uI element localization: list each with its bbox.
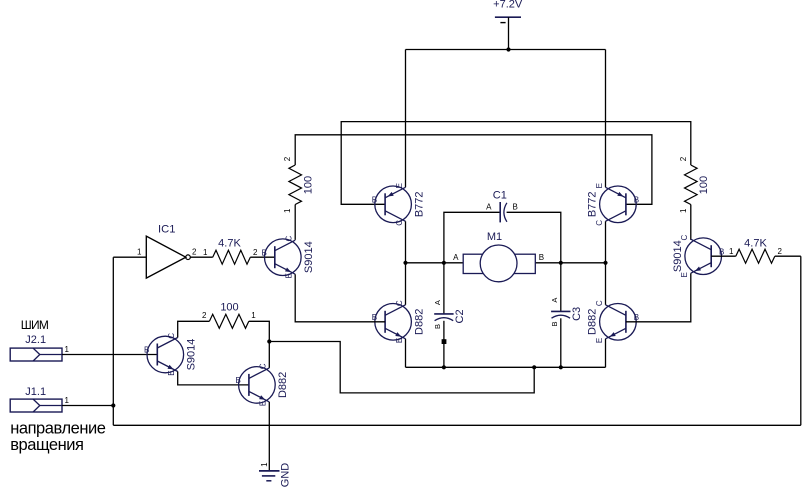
motor M1 (463, 245, 535, 282)
svg-text:D882: D882 (413, 309, 425, 335)
svg-text:2: 2 (192, 248, 197, 257)
wire Q4 emitter to Q6 base (626, 273, 691, 322)
svg-text:IC1: IC1 (158, 224, 175, 236)
wire rail A (341, 122, 691, 205)
pin 2 label R3 (253, 248, 258, 257)
wire Q6 emitter to bottom row (605, 339, 607, 368)
svg-text:1: 1 (283, 208, 292, 213)
node motor-right junction (603, 261, 607, 265)
svg-text:C2: C2 (454, 309, 466, 323)
svg-text:B: B (144, 346, 149, 355)
node C3 bottom junction (559, 365, 563, 369)
wire power stem (508, 17, 510, 49)
node control-wire junction (532, 365, 536, 369)
wire C2 top lead (443, 263, 445, 314)
label M1 (487, 231, 502, 243)
svg-text:S9014: S9014 (672, 240, 684, 272)
svg-text:направление: направление (10, 420, 106, 438)
wire left drop to Q1 emitter (405, 50, 407, 188)
svg-text:C: C (167, 333, 176, 339)
pin 1 label R3 (203, 248, 208, 257)
svg-text:J2.1: J2.1 (25, 334, 46, 346)
resistor 4.7K (right, R4) (736, 249, 775, 263)
svg-text:100: 100 (220, 302, 238, 314)
resistor 100 (right, R2) (685, 165, 698, 205)
transistor Q3 S9014 (upper-left NPN) (261, 235, 315, 278)
svg-text:S9014: S9014 (303, 241, 315, 273)
wire J1.1 to node (62, 405, 113, 407)
resistor 100 (control, R5) (209, 314, 248, 328)
svg-text:C: C (395, 300, 404, 306)
wire Q1 collector to motor row (405, 221, 407, 262)
pin 1 label IC1 (137, 248, 142, 257)
node C3 top junction (559, 261, 563, 265)
svg-text:1: 1 (65, 345, 70, 354)
op-amp IC1 inverter (146, 236, 190, 278)
svg-text:2: 2 (778, 247, 783, 256)
pin A label M1 (453, 253, 459, 262)
node R5-C2 wire junction (267, 339, 271, 343)
wire R3 to Q3 base (250, 256, 274, 258)
svg-text:A: A (486, 202, 492, 211)
pin 2 label R2 (679, 156, 688, 161)
power +7.2V label (493, 0, 523, 10)
svg-text:B: B (634, 196, 639, 205)
svg-text:B: B (261, 248, 266, 257)
resistor 4.7K (left, R3) (213, 250, 251, 264)
wire Q5 emitter to bottom row (405, 339, 407, 368)
svg-text:B: B (433, 324, 442, 329)
svg-text:S9014: S9014 (186, 339, 198, 371)
value label R5 100 (220, 302, 238, 314)
transistor Q8 D882 (control NPN) (236, 363, 290, 406)
svg-text:C: C (595, 220, 604, 226)
svg-text:1: 1 (137, 248, 142, 257)
capacitor C3 (550, 298, 583, 327)
transistor Q6 D882 (bottom-right NPN) (587, 300, 639, 343)
svg-text:D882: D882 (277, 372, 289, 398)
wire C2 bottom lead (443, 321, 445, 368)
wire C1 left branch (444, 212, 500, 262)
node C2 top junction (442, 261, 446, 265)
svg-text:4.7K: 4.7K (218, 238, 241, 250)
svg-text:2: 2 (253, 248, 258, 257)
node motor-left junction (403, 261, 407, 265)
svg-text:B: B (539, 253, 544, 262)
wire junction to C2/C3 net (269, 342, 534, 393)
wire R5 to Q8 collector (249, 321, 269, 368)
pin 1 label R5 (251, 311, 256, 320)
svg-text:B772: B772 (587, 191, 599, 217)
value label R4 4.7K (744, 238, 767, 250)
svg-text:1: 1 (203, 248, 208, 257)
transistor Q2 B772 (top-right PNP) (587, 183, 639, 226)
svg-text:C: C (595, 300, 604, 306)
svg-text:1: 1 (251, 311, 256, 320)
wire bottom rail (113, 424, 801, 426)
wire motor row right (535, 262, 605, 264)
svg-text:E: E (395, 183, 404, 188)
svg-text:E: E (259, 401, 268, 406)
svg-text:+7.2V: +7.2V (493, 0, 523, 10)
capacitor C1 (500, 202, 507, 222)
wire R1 to Q3 collector (294, 205, 296, 240)
wire Q6 collector (605, 263, 607, 305)
pin 2 label R5 (202, 311, 207, 320)
svg-text:100: 100 (698, 176, 710, 194)
svg-text:E: E (285, 273, 294, 278)
wire Q7 collector up (178, 321, 210, 337)
svg-text:D882: D882 (587, 309, 599, 335)
svg-text:B: B (634, 313, 639, 322)
label napravlenie (10, 420, 106, 438)
wire Q2 collector to motor row (605, 221, 607, 262)
svg-text:A: A (550, 298, 559, 303)
wire rail B (295, 135, 652, 205)
transistor Q5 D882 (bottom-left NPN) (372, 300, 426, 343)
wire left riser (112, 257, 114, 425)
svg-text:1: 1 (679, 208, 688, 213)
svg-text:C: C (680, 234, 689, 240)
wire J2.1 to Q7 base (62, 354, 157, 356)
svg-text:E: E (167, 370, 176, 375)
svg-text:B772: B772 (413, 191, 425, 217)
wire Q8 emitter to ground (268, 402, 270, 471)
svg-text:GND: GND (279, 463, 291, 488)
svg-text:B: B (372, 196, 377, 205)
svg-text:B: B (719, 247, 724, 256)
svg-text:1: 1 (65, 396, 70, 405)
svg-text:4.7K: 4.7K (744, 238, 767, 250)
svg-text:E: E (395, 338, 404, 343)
wire C1 right branch (507, 212, 561, 262)
svg-text:1: 1 (729, 247, 734, 256)
capacitor C2 (433, 300, 466, 329)
power supply symbol +7.2V (495, 17, 521, 22)
wire C3 top lead (560, 263, 562, 312)
node square on C2 lead (442, 339, 447, 344)
svg-text:ШИМ: ШИМ (21, 318, 49, 332)
svg-text:1: 1 (260, 462, 269, 467)
pin A label C1 (486, 202, 492, 211)
pin 2 label R1 (283, 156, 292, 161)
transistor Q1 B772 (top-left PNP) (372, 183, 426, 226)
svg-text:E: E (595, 338, 604, 343)
svg-text:E: E (595, 183, 604, 188)
svg-text:C: C (285, 235, 294, 241)
svg-text:A: A (453, 253, 459, 262)
svg-text:B: B (513, 202, 518, 211)
pin 1 label J1.1 (65, 396, 70, 405)
pin 1 label J2.1 (65, 345, 70, 354)
value label R1 100 (303, 176, 315, 194)
resistor 100 (left, R1) (289, 165, 302, 205)
node power junction (506, 47, 510, 51)
pin 2 label R4 (778, 247, 783, 256)
node J1.1 junction (111, 403, 115, 407)
connector J1.1 (10, 386, 62, 412)
label GND (279, 463, 291, 488)
pin 2 label IC1 (192, 248, 197, 257)
wire right riser (800, 256, 802, 425)
label SHIM (21, 318, 49, 332)
pin 1 label R4 (729, 247, 734, 256)
svg-text:B: B (550, 321, 559, 326)
svg-text:M1: M1 (487, 231, 502, 243)
label vrashcheniya (10, 436, 83, 454)
svg-text:B: B (236, 376, 241, 385)
svg-text:J1.1: J1.1 (25, 386, 46, 398)
svg-text:C1: C1 (493, 189, 507, 201)
wire emitter row (406, 366, 606, 368)
wire right drop to Q2 emitter (605, 50, 607, 188)
ground GND (259, 471, 280, 481)
wire IC1 output (190, 256, 212, 258)
value label R2 100 (698, 176, 710, 194)
pin B label M1 (539, 253, 544, 262)
svg-text:вращения: вращения (10, 436, 83, 454)
svg-text:C3: C3 (571, 307, 583, 321)
svg-text:B: B (372, 313, 377, 322)
wire Q4 base to R4 (711, 255, 736, 257)
svg-text:C: C (259, 363, 268, 369)
transistor Q4 S9014 (right NPN mirrored) (672, 234, 724, 277)
wire motor row left (406, 262, 464, 264)
wire IC1 input (113, 256, 146, 258)
transistor Q7 S9014 (lower-left NPN) (144, 333, 198, 376)
wire Q7 emitter to Q8 base (178, 372, 249, 385)
wire Q5 collector (405, 263, 407, 305)
wire top rail (406, 49, 606, 51)
label IC1 (158, 224, 175, 236)
svg-text:A: A (433, 300, 442, 305)
svg-text:C: C (395, 220, 404, 226)
pin 1 label GND (260, 462, 269, 467)
pin B label C1 (513, 202, 518, 211)
pin 1 label R1 (283, 208, 292, 213)
wire C3 bottom lead (560, 318, 562, 367)
svg-text:2: 2 (679, 156, 688, 161)
svg-text:100: 100 (303, 176, 315, 194)
wire Q3 emitter to Q5 base (295, 274, 385, 322)
label C1 (493, 189, 507, 201)
wire R2 to Q4 collector (690, 205, 692, 240)
svg-text:2: 2 (202, 311, 207, 320)
wire R4 to right riser (775, 255, 801, 257)
svg-text:2: 2 (283, 156, 292, 161)
node C2 bottom junction (442, 365, 446, 369)
connector J2.1 (10, 334, 62, 361)
value label R3 4.7K (218, 238, 241, 250)
pin 1 label R2 (679, 208, 688, 213)
